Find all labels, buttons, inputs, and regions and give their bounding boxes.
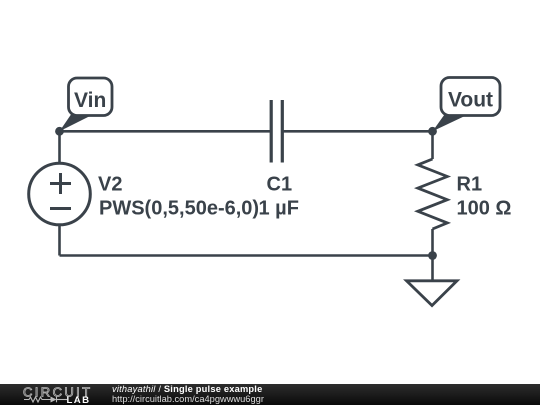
node Vin junction dot (55, 127, 64, 136)
footer bar (0, 384, 540, 405)
node Vin flag (60, 78, 113, 131)
ground (407, 281, 458, 306)
junction dot at R1 bottom / ground (428, 251, 437, 260)
voltage source V2 (29, 163, 91, 225)
svg-text:Vout: Vout (448, 89, 493, 112)
resistor R1 (418, 159, 448, 229)
svg-text:LAB: LAB (67, 395, 91, 405)
node Vout junction dot (428, 127, 437, 136)
wire V2 bottom lead (58, 225, 61, 256)
CircuitLab logo schematic doodle (wire, resistor, diode) (24, 397, 67, 403)
node Vout flag (433, 78, 501, 132)
wire R1 bottom lead (431, 229, 434, 256)
svg-text:PWS(0,5,50e-6,0): PWS(0,5,50e-6,0) (99, 198, 259, 220)
wire V2 top lead (58, 131, 61, 164)
svg-text:1 µF: 1 µF (259, 198, 299, 220)
wire top-right (C1 right plate to Vout node) (283, 130, 433, 133)
svg-text:Vin: Vin (74, 89, 106, 112)
svg-text:C1: C1 (267, 174, 293, 196)
wire ground lead (431, 256, 434, 282)
svg-text:R1: R1 (457, 174, 483, 196)
wire top-left (Vin node to C1 left plate) (60, 130, 272, 133)
svg-text:V2: V2 (98, 174, 122, 196)
capacitor C1 (271, 100, 282, 163)
wire bottom rail (60, 254, 433, 257)
wire R1 top lead (431, 131, 434, 159)
svg-text:100 Ω: 100 Ω (457, 198, 512, 220)
